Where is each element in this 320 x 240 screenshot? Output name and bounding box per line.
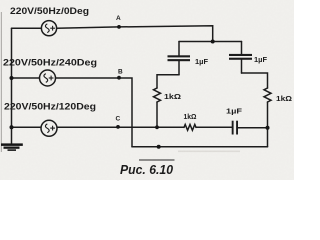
svg-text:A: A [116, 15, 121, 22]
svg-text:1µF: 1µF [195, 59, 209, 66]
svg-text:1kΩ: 1kΩ [276, 96, 292, 103]
svg-text:B: B [118, 69, 123, 76]
svg-text:1kΩ: 1kΩ [164, 94, 181, 101]
svg-text:220V/50Hz/120Deg: 220V/50Hz/120Deg [4, 102, 96, 112]
svg-text:1kΩ: 1kΩ [184, 114, 197, 121]
svg-text:1µF: 1µF [226, 107, 243, 116]
svg-text:220V/50Hz/240Deg: 220V/50Hz/240Deg [3, 58, 97, 68]
svg-text:1µF: 1µF [254, 57, 268, 64]
svg-text:Рис. 6.10: Рис. 6.10 [120, 163, 173, 177]
svg-text:C: C [116, 115, 121, 122]
svg-text:220V/50Hz/0Deg: 220V/50Hz/0Deg [10, 6, 89, 16]
